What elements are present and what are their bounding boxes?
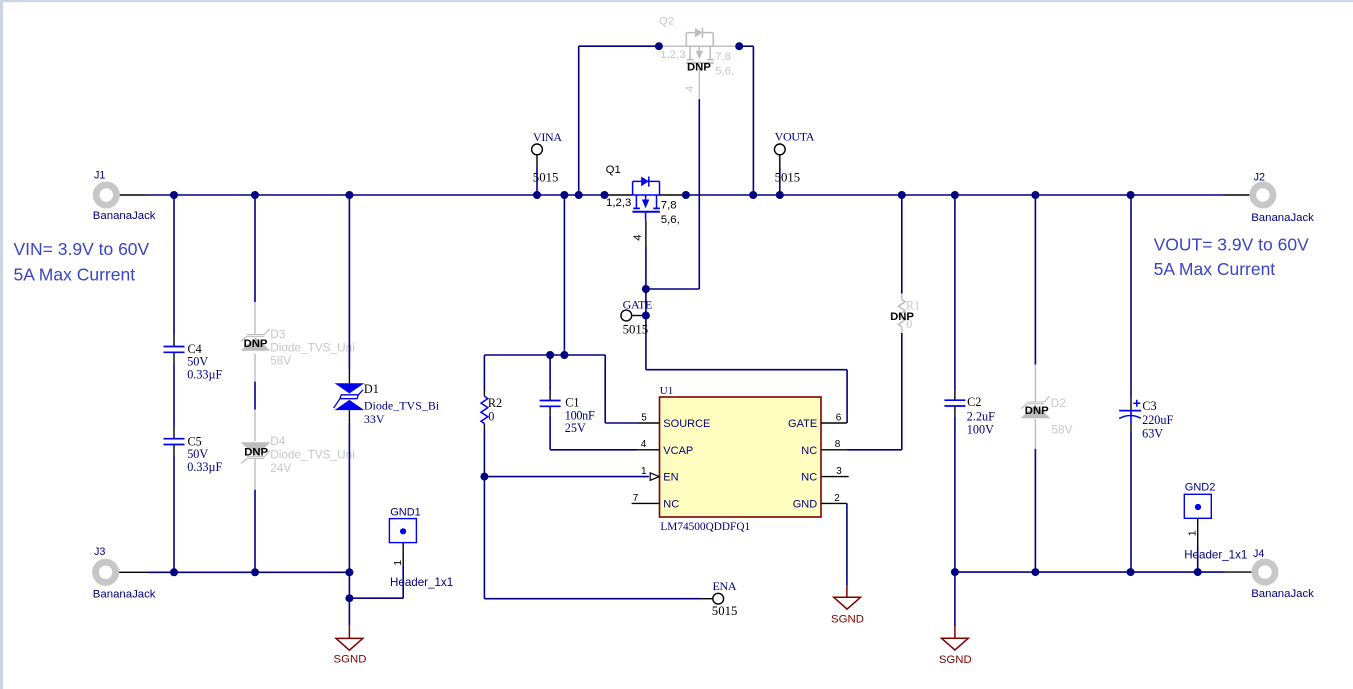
diode D1 Diode_TVS_Bi <box>334 382 440 426</box>
svg-text:DNP: DNP <box>1025 405 1049 417</box>
svg-text:GND1: GND1 <box>390 507 421 519</box>
svg-text:7: 7 <box>633 493 639 504</box>
capacitor C1 <box>540 355 638 450</box>
sheet border top <box>0 0 1353 2</box>
wire bottom right rail <box>955 571 1225 573</box>
junctions VCAP net <box>546 351 568 359</box>
connector J1 BananaJack <box>93 170 156 223</box>
svg-text:GND2: GND2 <box>1185 481 1216 493</box>
svg-text:Diode_TVS_Bi: Diode_TVS_Bi <box>364 398 440 412</box>
svg-text:0.33µF: 0.33µF <box>187 460 222 474</box>
svg-text:58V: 58V <box>1052 423 1073 437</box>
testpoint VINA <box>532 130 563 195</box>
svg-text:Q2: Q2 <box>659 15 674 27</box>
wire VIN top rail <box>147 194 1225 196</box>
U1 pin 6 GATE <box>788 412 847 430</box>
wire Q1 gate down <box>645 220 647 369</box>
svg-text:DNP: DNP <box>890 311 914 323</box>
wire D1 column <box>348 195 350 626</box>
svg-text:1,2,3: 1,2,3 <box>660 49 685 61</box>
svg-text:D4: D4 <box>270 434 286 448</box>
transistor Q1 <box>606 164 680 241</box>
wire D3 D4 column <box>254 195 256 572</box>
svg-text:220uF: 220uF <box>1142 413 1173 427</box>
svg-text:5015: 5015 <box>775 171 801 185</box>
wire C4 C5 column <box>173 195 175 572</box>
svg-text:1: 1 <box>641 466 647 477</box>
svg-text:1,2,3: 1,2,3 <box>606 197 631 209</box>
svg-text:BananaJack: BananaJack <box>1251 588 1314 600</box>
svg-text:Header_1x1: Header_1x1 <box>390 576 453 589</box>
capacitor C2 <box>944 195 995 572</box>
wire Q2 branch top <box>579 45 754 47</box>
svg-text:Q1: Q1 <box>606 164 621 176</box>
svg-text:VINA: VINA <box>533 130 562 144</box>
svg-text:GND: GND <box>793 499 818 511</box>
wire EN <box>484 476 649 478</box>
connector J4 BananaJack <box>1225 548 1315 600</box>
svg-text:7,8: 7,8 <box>661 199 677 211</box>
svg-text:25V: 25V <box>565 421 586 435</box>
svg-text:J2: J2 <box>1254 171 1265 183</box>
svg-text:1: 1 <box>1186 530 1198 536</box>
svg-text:50V: 50V <box>187 355 208 369</box>
op-amp U1 LM74500QDDFQ1 body <box>660 385 822 533</box>
capacitor C3 <box>1119 195 1173 572</box>
svg-text:SOURCE: SOURCE <box>663 418 710 430</box>
ground SGND U1 <box>831 503 864 625</box>
U1 pin 1 EN <box>641 466 679 484</box>
svg-text:Diode_TVS_Uni: Diode_TVS_Uni <box>270 448 355 462</box>
svg-text:LM74500QDDFQ1: LM74500QDDFQ1 <box>660 521 750 533</box>
transistor Q2 DNP <box>659 15 734 92</box>
connector J3 BananaJack <box>93 546 156 600</box>
svg-text:J4: J4 <box>1253 548 1264 560</box>
svg-text:VOUT= 3.9V to 60V: VOUT= 3.9V to 60V <box>1154 235 1309 255</box>
svg-text:58V: 58V <box>270 353 291 367</box>
svg-text:BananaJack: BananaJack <box>93 588 156 600</box>
junctions on VIN rail <box>170 191 1135 199</box>
svg-text:4: 4 <box>641 439 647 450</box>
svg-text:33V: 33V <box>364 412 385 426</box>
svg-text:C3: C3 <box>1142 399 1156 413</box>
note VIN <box>14 239 150 284</box>
svg-text:5015: 5015 <box>533 171 559 185</box>
svg-text:2: 2 <box>834 493 840 504</box>
svg-text:Header_1x1: Header_1x1 <box>1184 549 1247 562</box>
U1 pin 3 NC <box>801 466 848 484</box>
svg-text:DNP: DNP <box>244 338 268 350</box>
svg-text:VCAP: VCAP <box>663 445 693 457</box>
junction GATE testpoint <box>642 312 650 320</box>
U1 pin 8 NC <box>801 439 847 457</box>
svg-text:GATE: GATE <box>788 418 817 430</box>
svg-text:3: 3 <box>836 466 842 477</box>
svg-text:50V: 50V <box>187 447 208 461</box>
svg-text:U1: U1 <box>660 385 673 397</box>
wire GND1 to SGND <box>349 597 403 599</box>
svg-text:NC: NC <box>801 445 817 457</box>
testpoint ENA <box>701 579 738 618</box>
wire gate node horizontal <box>646 288 699 290</box>
junctions bottom left rail <box>170 568 353 602</box>
diode D4 Diode_TVS_Uni DNP <box>241 434 355 475</box>
wire bottom left rail <box>148 571 350 573</box>
svg-text:5015: 5015 <box>712 604 738 618</box>
svg-text:4: 4 <box>684 86 696 92</box>
diode D2 Diode_TVS_Uni DNP <box>1020 396 1072 437</box>
sheet border left <box>0 0 3 689</box>
junction EN node <box>480 473 488 481</box>
U1 pin 5 SOURCE <box>637 412 710 430</box>
junction gate node <box>642 285 650 293</box>
svg-text:1: 1 <box>392 560 404 566</box>
svg-text:7,8: 7,8 <box>715 51 731 63</box>
svg-text:0.33µF: 0.33µF <box>187 368 222 382</box>
svg-text:D2: D2 <box>1051 396 1066 410</box>
ground SGND left <box>334 626 367 666</box>
U1 pin 2 GND <box>793 493 847 511</box>
wire D2 column <box>1034 195 1036 572</box>
svg-text:C2: C2 <box>967 395 981 409</box>
svg-text:J1: J1 <box>94 170 105 182</box>
svg-text:5015: 5015 <box>623 322 649 336</box>
svg-text:100V: 100V <box>967 423 994 437</box>
svg-text:8: 8 <box>835 439 841 450</box>
capacitor C5 <box>164 434 223 474</box>
junctions on Q2 branch <box>655 42 743 50</box>
svg-text:5,6,: 5,6, <box>661 214 680 226</box>
ground SGND right <box>939 572 972 666</box>
wire VCAP branch top <box>484 195 637 423</box>
capacitor C4 <box>164 342 223 382</box>
header GND1 <box>389 507 453 599</box>
svg-text:D3: D3 <box>270 327 286 341</box>
diode D3 Diode_TVS_Uni DNP <box>241 327 355 368</box>
svg-text:6: 6 <box>836 412 842 423</box>
svg-text:5,6,: 5,6, <box>715 66 734 78</box>
svg-text:VIN= 3.9V to 60V: VIN= 3.9V to 60V <box>14 239 150 259</box>
svg-text:GATE: GATE <box>623 297 652 311</box>
testpoint VOUTA <box>774 129 814 195</box>
svg-text:BananaJack: BananaJack <box>1251 212 1314 224</box>
svg-text:5A Max Current: 5A Max Current <box>14 264 136 284</box>
wire gate to U1 pin6 <box>646 370 847 423</box>
svg-text:5: 5 <box>641 412 647 423</box>
svg-text:ENA: ENA <box>713 579 737 593</box>
wire Q2 loop right <box>752 46 754 195</box>
resistor R2 <box>481 355 502 599</box>
U1 pin 4 VCAP <box>637 439 693 457</box>
svg-text:SGND: SGND <box>831 613 864 625</box>
testpoint GATE <box>621 297 652 336</box>
svg-text:2.2uF: 2.2uF <box>967 409 995 423</box>
svg-text:NC: NC <box>801 472 817 484</box>
svg-text:VOUTA: VOUTA <box>775 129 815 143</box>
svg-text:D1: D1 <box>364 382 379 396</box>
U1 pin 7 NC <box>632 493 680 511</box>
svg-text:NC: NC <box>663 499 679 511</box>
svg-text:SGND: SGND <box>334 654 367 666</box>
svg-text:63V: 63V <box>1142 427 1163 441</box>
svg-text:24V: 24V <box>270 461 291 475</box>
svg-text:0: 0 <box>488 409 494 423</box>
wire Q2 gate down <box>698 72 700 290</box>
wire pin8 to R1 <box>847 195 902 450</box>
svg-text:BananaJack: BananaJack <box>93 210 156 222</box>
svg-text:5A Max Current: 5A Max Current <box>1154 259 1276 279</box>
svg-text:SGND: SGND <box>939 654 972 666</box>
wire ENA <box>484 598 700 600</box>
connector J2 BananaJack <box>1225 171 1315 224</box>
svg-text:Diode_TVS_Uni: Diode_TVS_Uni <box>270 340 355 354</box>
svg-text:DNP: DNP <box>687 61 711 73</box>
svg-text:4: 4 <box>632 234 644 240</box>
junctions bottom right rail <box>951 568 1202 576</box>
svg-text:J3: J3 <box>94 546 105 558</box>
wire Q2 loop left <box>578 46 580 195</box>
svg-text:DNP: DNP <box>244 446 268 458</box>
svg-text:EN: EN <box>663 472 678 484</box>
header GND2 <box>1184 481 1247 572</box>
svg-text:R2: R2 <box>488 396 502 410</box>
resistor R1 DNP <box>890 299 920 332</box>
note VOUT <box>1154 235 1309 279</box>
